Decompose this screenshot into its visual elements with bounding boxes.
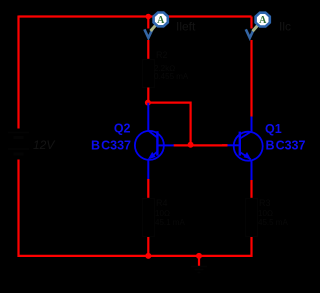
svg-text:R3: R3 — [259, 198, 271, 208]
svg-text:Q1: Q1 — [265, 122, 282, 136]
svg-text:A: A — [157, 15, 165, 26]
wire left branch vertical (battery to top rail) — [17, 16, 19, 129]
node junction dot ground tap — [196, 253, 202, 259]
svg-text:R4: R4 — [156, 198, 168, 208]
transistor Q2 emitter arrowhead — [148, 152, 156, 159]
svg-text:45.1 mA: 45.1 mA — [155, 218, 185, 227]
current direction arrow Iright (blue chevron) — [246, 29, 254, 38]
svg-text:R2: R2 — [156, 50, 168, 60]
transistor Q1 emitter arrowhead — [244, 152, 251, 159]
wire ground stub — [198, 256, 200, 266]
wire diode-connection loop (collector to bases) — [148, 103, 191, 145]
wire left branch vertical (battery to bottom rail) — [17, 160, 19, 258]
current direction arrow Ileft (blue chevron) — [144, 29, 152, 38]
svg-text:10Ω: 10Ω — [155, 209, 170, 218]
node junction dot top (left measuring branch) — [146, 14, 152, 20]
ammeter U2 probe icon (right) — [253, 13, 270, 32]
wire Q1 base stub (red part) — [222, 144, 228, 146]
wire base-to-base middle segment (red) — [174, 144, 228, 146]
svg-text:Ilc: Ilc — [279, 20, 291, 34]
wire R2 branch below resistor — [147, 88, 149, 103]
svg-text:Ileft: Ileft — [176, 20, 196, 34]
svg-text:B C337: B C337 — [91, 139, 131, 153]
wire top rail — [19, 15, 252, 17]
svg-text:0.455 mA: 0.455 mA — [154, 72, 189, 81]
battery B1 12V — [8, 133, 29, 155]
ground symbol — [191, 267, 207, 273]
wire R4 to bottom rail — [147, 237, 149, 256]
svg-text:Q2: Q2 — [114, 121, 131, 135]
wire Q2 emitter (red part) — [147, 179, 149, 198]
svg-text:45.5 mA: 45.5 mA — [258, 218, 288, 227]
wire Q1 emitter (red part) — [250, 180, 252, 198]
svg-text:12V: 12V — [33, 138, 55, 152]
wire bottom rail — [18, 255, 252, 257]
node junction dot Q2 emitter at rail — [145, 253, 151, 259]
svg-text:B C337: B C337 — [266, 139, 306, 153]
svg-text:A: A — [259, 15, 267, 26]
wire right branch to Q1 collector — [250, 40, 252, 117]
wire R2 branch above resistor — [147, 40, 149, 60]
resistor R2 body — [143, 60, 155, 88]
node junction dot on base wire — [188, 142, 194, 148]
wire R2 branch upper segment — [147, 17, 149, 29]
transistor Q2 (BC337, base on right) — [135, 103, 174, 179]
wire right branch upper segment — [250, 17, 252, 29]
svg-text:10Ω: 10Ω — [258, 209, 273, 218]
resistor R4 body — [143, 199, 155, 237]
resistor R3 body — [246, 199, 258, 237]
wire R3 to bottom rail — [250, 237, 252, 257]
node junction dot Q2 collector — [145, 100, 151, 106]
transistor Q1 (BC337, base on left) — [227, 116, 263, 180]
ammeter U1 probe icon (left) — [151, 13, 168, 32]
